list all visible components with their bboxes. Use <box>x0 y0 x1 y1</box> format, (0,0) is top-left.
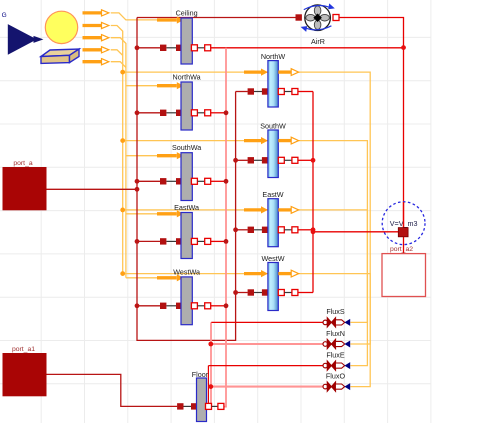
heat flow source FluxE <box>323 350 350 370</box>
wire <box>111 62 126 68</box>
wire collector to volume heat port <box>313 231 398 233</box>
wire WestW outside surface <box>236 292 248 294</box>
svg-text:port_a2: port_a2 <box>390 246 413 253</box>
wire window inner collector <box>312 92 314 293</box>
wire EastWa outside surface <box>137 240 160 242</box>
wire FluxE feed <box>208 365 323 367</box>
wire WestWa inside surface <box>211 305 226 307</box>
solar radiation arrow 4 <box>83 48 102 51</box>
heat flow source FluxS <box>323 307 350 327</box>
wire window solar bus <box>111 26 123 274</box>
wire wall inner collector (light red) <box>224 48 226 407</box>
wire SouthW solar line to FluxS <box>123 141 368 323</box>
svg-text:AirR: AirR <box>311 37 325 46</box>
wall WestWa <box>157 267 211 324</box>
svg-text:SouthW: SouthW <box>260 122 286 131</box>
volume V=V_m3 <box>382 202 425 245</box>
wire solar feed WestWa <box>126 277 158 279</box>
wire FluxN feed (thick light red) <box>211 343 323 345</box>
volume heat port <box>398 228 408 237</box>
wall Ceiling <box>157 9 211 65</box>
svg-text:FluxO: FluxO <box>326 371 346 380</box>
solar radiation arrow 2 <box>83 24 102 27</box>
wire SouthW outside surface <box>236 159 248 161</box>
wire WestW inner <box>298 292 313 294</box>
wire wall solar bus <box>111 38 126 278</box>
wire EastW outside surface <box>236 229 248 231</box>
wire NorthWa inside surface <box>211 112 226 114</box>
sun <box>45 11 77 43</box>
svg-text:Ceiling: Ceiling <box>176 9 198 18</box>
svg-text:FluxS: FluxS <box>326 307 345 316</box>
wire flux distribution riser <box>210 322 212 406</box>
solar radiation arrow 3 <box>83 36 102 39</box>
wire volume to port_a2 <box>403 237 405 254</box>
wire outdoor temperature trunk (port_a net) <box>137 18 236 341</box>
wire through volume <box>403 202 405 228</box>
wire NorthW solar line to FluxN <box>123 72 371 344</box>
wire WestW solar line to FluxO <box>123 274 371 387</box>
ground slab <box>41 49 79 57</box>
wire solar bus to Ceiling <box>111 13 158 20</box>
svg-text:FluxN: FluxN <box>326 329 345 338</box>
window SouthW <box>244 122 299 178</box>
solar radiation arrow 5 <box>83 60 102 63</box>
svg-text:FluxE: FluxE <box>326 350 345 359</box>
svg-text:port_a1: port_a1 <box>12 346 35 353</box>
wire AirR inlet <box>137 17 296 19</box>
wire WestWa outside surface <box>137 305 160 307</box>
wire solar feed SouthWa <box>126 155 158 157</box>
wire Ceiling inside surface <box>211 47 404 49</box>
wire SouthWa inside surface <box>211 180 226 182</box>
wall SouthWa <box>157 143 211 200</box>
svg-text:WestW: WestW <box>261 254 284 263</box>
wire AirR outlet down to volume <box>339 18 404 228</box>
svg-text:EastW: EastW <box>262 190 283 199</box>
wire NorthW inner <box>298 91 313 93</box>
wire FluxE riser <box>207 366 209 407</box>
wire EastW solar line to FluxE <box>123 210 368 366</box>
svg-text:NorthWa: NorthWa <box>173 73 201 82</box>
wire NorthWa outside surface <box>137 112 160 114</box>
wall EastWa <box>157 203 211 259</box>
wire FluxO feed (thick light red) <box>211 386 323 388</box>
heat flow source FluxN <box>323 329 350 349</box>
svg-text:EastWa: EastWa <box>174 203 199 212</box>
svg-text:G: G <box>2 12 7 19</box>
solar radiation arrow 1 <box>83 11 102 14</box>
window NorthW <box>244 52 299 107</box>
wire port_a to trunk <box>47 188 138 190</box>
wire SouthWa outside surface <box>137 180 160 182</box>
fan AirR outlet port <box>333 15 339 21</box>
window EastW <box>244 190 299 247</box>
wire solar feed NorthWa <box>126 85 158 87</box>
wire port_a1 to Floor <box>47 374 178 406</box>
wire SouthW inner <box>298 159 313 161</box>
wire Ceiling outside surface <box>137 47 160 49</box>
wall Floor <box>177 370 224 422</box>
fan AirR <box>301 3 335 46</box>
svg-text:port_a: port_a <box>13 160 32 167</box>
wall NorthWa <box>157 73 211 131</box>
wire EastW inner <box>298 229 313 231</box>
wire NorthW outside surface <box>236 91 248 93</box>
wire solar feed EastWa <box>126 213 158 215</box>
heat flow source FluxO <box>323 371 350 391</box>
svg-text:SouthWa: SouthWa <box>172 143 201 152</box>
window WestW <box>244 254 299 311</box>
solar bus junctions <box>120 70 125 276</box>
fan AirR inlet port <box>296 14 302 20</box>
wire EastWa inside surface <box>211 240 226 242</box>
wire <box>111 50 123 56</box>
solar source triangle <box>8 24 37 55</box>
svg-text:NorthW: NorthW <box>261 52 286 61</box>
wire FluxS feed <box>211 321 323 323</box>
